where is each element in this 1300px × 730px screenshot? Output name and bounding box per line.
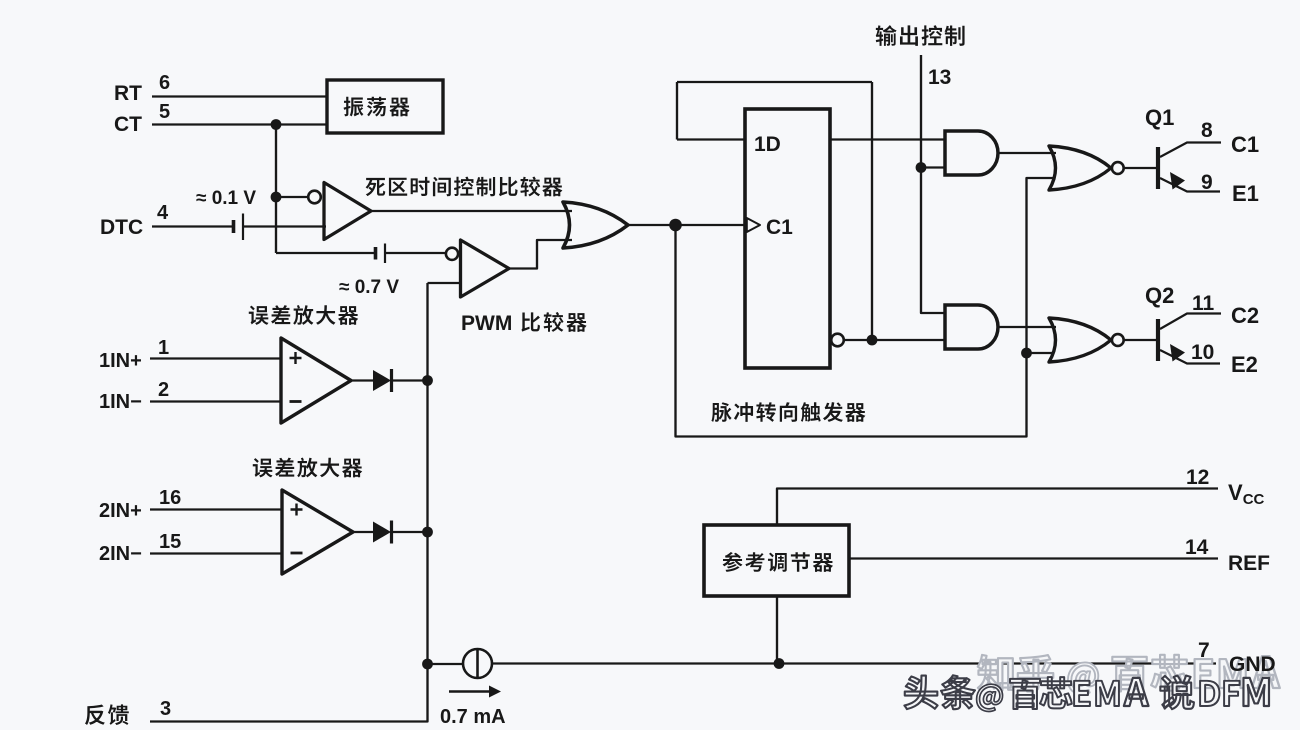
PWM comparator U2 triangle — [461, 240, 510, 297]
wire 0.7V branch to battery — [276, 252, 375, 254]
wire 2IN+ to op-amp — [150, 508, 282, 510]
wire feedback vertical line — [426, 283, 428, 664]
current source I1 — [463, 649, 492, 678]
op-amp U9 minus sign — [290, 400, 302, 403]
svg-text:DTC: DTC — [100, 216, 143, 239]
label 误差放大器 upper — [249, 305, 358, 325]
flip-flop clock triangle — [747, 218, 760, 232]
wire feedback line to PWM comparator lower input — [428, 282, 461, 284]
node Qbar junction — [867, 335, 878, 346]
node feedback junction 1 — [422, 375, 433, 386]
transistor Q2 base bar — [1156, 319, 1160, 361]
wire AND2 output to NOR2 — [997, 326, 1056, 328]
wire op-amp output to diode — [353, 531, 373, 533]
NOR gate U8 — [1049, 318, 1111, 362]
wire node to comparator bubble — [276, 196, 308, 198]
diode D1 — [373, 370, 391, 391]
transistor Q2 collector — [1160, 314, 1221, 330]
op-amp U10 plus sign — [291, 504, 303, 516]
label 反馈 — [85, 704, 129, 725]
op-amp U9 plus sign — [290, 352, 302, 364]
label 误差放大器 lower — [253, 458, 362, 478]
label 参考调节器 — [723, 552, 833, 572]
wire diode to feedback line — [393, 531, 428, 533]
node 0.1V comparator input — [271, 192, 282, 203]
svg-text:C1: C1 — [1231, 132, 1259, 157]
node feedback junction 2 — [422, 527, 433, 538]
wire ground rail — [492, 662, 1216, 664]
label 输出控制 — [876, 25, 965, 46]
wire DTC pin4 to battery — [152, 225, 233, 227]
svg-text:0.7 mA: 0.7 mA — [440, 706, 506, 728]
wire CT junction down to 0.1V node — [275, 125, 277, 198]
wire NOR2 to Q2 base — [1124, 339, 1156, 341]
svg-text:13: 13 — [928, 66, 951, 89]
flip-flop box U4 — [745, 109, 830, 368]
node ground junction left — [422, 659, 433, 670]
node pin13 junction — [916, 162, 927, 173]
AND gate U5 — [945, 131, 998, 175]
svg-text:14: 14 — [1185, 536, 1209, 559]
svg-text:C1: C1 — [766, 216, 793, 239]
node NOR2 input junction — [1021, 348, 1032, 359]
wire dead-time comparator output to OR gate — [371, 210, 572, 212]
transistor Q2 emitter — [1160, 350, 1220, 364]
NOR1 output bubble — [1112, 162, 1124, 174]
svg-text:≈ 0.7 V: ≈ 0.7 V — [339, 277, 399, 298]
transistor Q1 emitter — [1160, 178, 1220, 192]
wire REF line — [849, 557, 1218, 559]
battery 0.7V short plate — [374, 247, 378, 260]
svg-text:C2: C2 — [1231, 303, 1259, 328]
battery 0.1V long plate — [242, 214, 244, 241]
wire PWM comparator output to OR gate — [509, 240, 572, 269]
svg-text:CT: CT — [114, 113, 142, 136]
wire 1D input line — [677, 138, 745, 140]
wire output-control vertical pin13 — [921, 55, 945, 313]
svg-text:1IN+: 1IN+ — [99, 350, 142, 372]
wire CT pin5 to oscillator — [152, 123, 328, 125]
transistor Q1 base bar — [1156, 147, 1160, 189]
node OR output junction — [669, 219, 682, 232]
wire 1IN+ to op-amp — [150, 357, 281, 359]
svg-text:1D: 1D — [754, 133, 781, 156]
svg-text:PWM: PWM — [461, 312, 512, 335]
AND gate U7 — [945, 305, 998, 349]
svg-text:REF: REF — [1228, 552, 1270, 575]
wire battery to comparator minus input — [243, 225, 326, 227]
transistor Q1 emitter arrow — [1170, 172, 1185, 190]
transistor Q2 emitter arrow — [1170, 344, 1185, 362]
battery 0.1V short plate — [232, 220, 236, 233]
wire node down to 0.7V branch — [275, 197, 277, 253]
svg-text:16: 16 — [159, 487, 181, 509]
wire 1IN- to op-amp — [150, 400, 281, 402]
wire ref box top to VCC — [777, 489, 1218, 526]
label 死区时间控制比较器 — [366, 177, 563, 197]
wire OR output to clock node — [628, 224, 676, 226]
oscillator label 振荡器 — [344, 97, 410, 117]
svg-text:2: 2 — [158, 379, 169, 401]
op-amp U9 triangle — [281, 338, 351, 423]
wire feedback down to pin3 — [150, 664, 428, 722]
svg-text:RT: RT — [114, 82, 142, 105]
NOR gate U6 — [1049, 146, 1111, 190]
battery 0.7V long plate — [384, 244, 386, 264]
svg-text:2IN+: 2IN+ — [99, 500, 142, 522]
svg-text:≈ 0.1 V: ≈ 0.1 V — [196, 188, 256, 209]
op-amp U10 minus sign — [291, 552, 303, 555]
op-amp U10 triangle — [282, 490, 353, 574]
svg-text:GND: GND — [1229, 653, 1276, 676]
svg-text:15: 15 — [159, 531, 181, 553]
wire RT pin6 to oscillator — [152, 95, 328, 97]
wire battery to PWM comparator bubble — [385, 252, 447, 254]
svg-text:3: 3 — [160, 698, 171, 720]
wire node to current source — [428, 663, 464, 665]
current source arrow — [449, 690, 489, 692]
wire feedback left vertical — [676, 82, 678, 140]
wire feedback right vertical — [871, 82, 873, 340]
svg-text:6: 6 — [159, 72, 170, 94]
svg-text:E1: E1 — [1232, 181, 1259, 206]
NOR2 output bubble — [1112, 334, 1124, 346]
svg-text:10: 10 — [1191, 341, 1214, 364]
watermark 知乎@百芯EMA — [978, 655, 1280, 695]
reference regulator box — [704, 525, 849, 596]
wire op-amp output to diode — [351, 379, 373, 381]
diode D2 — [373, 522, 391, 543]
svg-text:11: 11 — [1192, 292, 1215, 315]
svg-text:2IN−: 2IN− — [99, 543, 142, 565]
label 脉冲转向触发器 — [711, 402, 865, 422]
svg-text:8: 8 — [1201, 119, 1213, 142]
svg-text:4: 4 — [157, 202, 169, 224]
node ground junction ref — [774, 658, 785, 669]
svg-text:Q2: Q2 — [1145, 283, 1174, 308]
svg-text:12: 12 — [1186, 466, 1209, 489]
PWM comparator input bubble — [446, 248, 458, 260]
node CT junction — [271, 119, 282, 130]
svg-text:E2: E2 — [1231, 352, 1258, 377]
wire AND1 output to NOR1 — [997, 152, 1056, 154]
flip-flop Qbar bubble — [831, 334, 844, 347]
svg-text:Q1: Q1 — [1145, 105, 1174, 130]
wire node to flip-flop clock — [676, 224, 746, 226]
watermark 头条@百芯EMA说DFM — [904, 675, 1269, 711]
wire NOR1 to Q1 base — [1124, 167, 1156, 169]
dead-time comparator input bubble — [308, 191, 321, 204]
OR gate U3 — [563, 202, 628, 248]
svg-text:5: 5 — [159, 101, 170, 123]
wire 2IN- to op-amp — [150, 552, 282, 554]
wire ref box bottom to ground — [776, 596, 778, 664]
wire Q output 1D to AND1 — [830, 138, 945, 140]
wire clock node down-right-up to NOR inputs — [676, 178, 1054, 437]
svg-text:1: 1 — [158, 337, 169, 359]
wire junction to NOR2 lower input — [1027, 352, 1053, 354]
wire Qbar to AND2 — [844, 339, 945, 341]
wire feedback top — [677, 81, 872, 83]
svg-text:9: 9 — [1201, 171, 1213, 194]
dead-time comparator U1 triangle — [324, 183, 371, 240]
oscillator box — [327, 80, 443, 133]
transistor Q1 collector — [1160, 143, 1221, 158]
wire pin13 junction to AND1 — [921, 166, 945, 168]
svg-text:7: 7 — [1198, 639, 1210, 662]
wire diode to feedback line — [393, 379, 428, 381]
svg-text:1IN−: 1IN− — [99, 391, 142, 413]
